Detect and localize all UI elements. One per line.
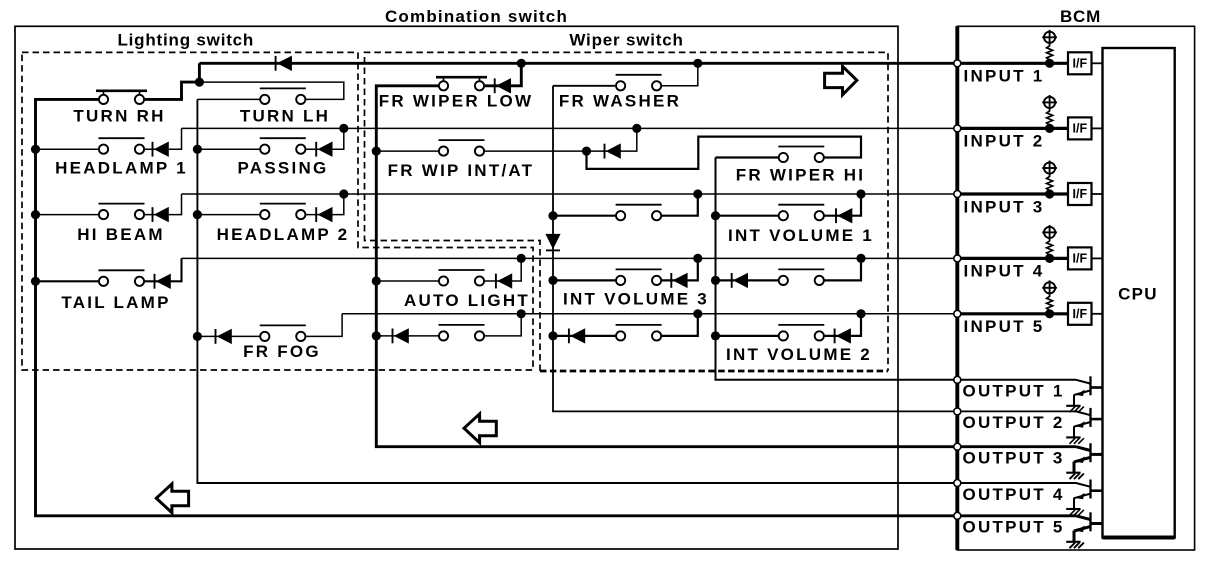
svg-text:HI BEAM: HI BEAM [77,225,165,244]
svg-text:FR WASHER: FR WASHER [559,92,681,111]
svg-text:AUTO LIGHT: AUTO LIGHT [404,291,530,310]
svg-text:Lighting switch: Lighting switch [117,31,254,50]
svg-text:INPUT 2: INPUT 2 [964,132,1045,151]
svg-text:INPUT 5: INPUT 5 [964,317,1045,336]
svg-text:I/F: I/F [1073,57,1088,71]
svg-text:TURN LH: TURN LH [240,107,330,126]
svg-text:INT VOLUME 1: INT VOLUME 1 [728,226,874,245]
svg-text:HEADLAMP 2: HEADLAMP 2 [217,225,350,244]
svg-text:FR WIPER HI: FR WIPER HI [736,166,866,185]
svg-text:FR FOG: FR FOG [243,342,321,361]
svg-text:OUTPUT 5: OUTPUT 5 [963,518,1065,537]
svg-text:INPUT 3: INPUT 3 [964,197,1045,216]
svg-text:HEADLAMP 1: HEADLAMP 1 [55,159,188,178]
svg-text:Combination switch: Combination switch [385,7,568,26]
svg-text:OUTPUT 4: OUTPUT 4 [963,485,1065,504]
svg-text:INPUT 1: INPUT 1 [964,67,1045,86]
svg-text:BCM: BCM [1060,7,1101,26]
svg-text:PASSING: PASSING [237,159,328,178]
svg-text:FR WIPER LOW: FR WIPER LOW [379,92,533,111]
svg-text:INPUT 4: INPUT 4 [964,262,1045,281]
svg-text:I/F: I/F [1073,252,1088,266]
svg-text:I/F: I/F [1073,122,1088,136]
svg-text:I/F: I/F [1073,307,1088,321]
svg-text:INT VOLUME 2: INT VOLUME 2 [726,345,872,364]
svg-text:CPU: CPU [1118,285,1158,304]
svg-text:OUTPUT 2: OUTPUT 2 [963,413,1065,432]
svg-text:OUTPUT 1: OUTPUT 1 [963,382,1065,401]
svg-text:OUTPUT 3: OUTPUT 3 [963,449,1065,468]
svg-text:Wiper switch: Wiper switch [569,31,683,50]
svg-text:TAIL LAMP: TAIL LAMP [61,293,170,312]
svg-text:FR WIP INT/AT: FR WIP INT/AT [388,161,535,180]
svg-text:I/F: I/F [1073,187,1088,201]
svg-text:TURN RH: TURN RH [73,107,165,126]
svg-text:INT VOLUME 3: INT VOLUME 3 [563,289,709,308]
